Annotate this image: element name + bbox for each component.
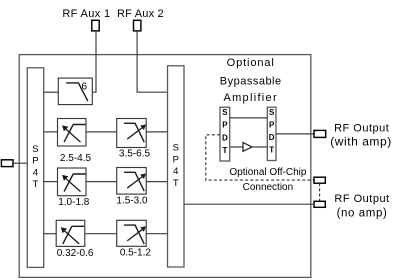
Optional Bypassable Amplifier label (220, 57, 282, 104)
low-pass symbol (66, 83, 88, 101)
svg-text:T: T (222, 146, 227, 155)
port RF Aux 2 (134, 20, 141, 31)
wire RF Aux 1 to LPF block (92, 31, 96, 92)
svg-text:RF Output: RF Output (334, 193, 389, 205)
svg-text:S: S (173, 143, 179, 154)
svg-text:(no amp): (no amp) (337, 207, 388, 219)
wire SP4T right to no-amp port (184, 203, 314, 205)
wire row2 to right SP4T (146, 131, 167, 133)
port RF input (left) (1, 160, 13, 167)
svg-text:T: T (269, 145, 274, 154)
switch SP4T right label (173, 143, 179, 189)
port RF Aux 1 (92, 20, 99, 31)
svg-text:0.32-0.6: 0.32-0.6 (57, 248, 94, 259)
svg-text:RF Aux 2: RF Aux 2 (117, 8, 164, 20)
switch SP4T left box (27, 68, 43, 268)
svg-text:D: D (222, 133, 228, 142)
svg-text:4: 4 (33, 167, 38, 178)
svg-text:RF Output: RF Output (334, 123, 389, 135)
wire row3 between blocks (86, 181, 117, 183)
filter tunable HPF 2.5-4.5 block (58, 119, 87, 147)
svg-text:Connection: Connection (243, 182, 294, 193)
svg-text:Optional: Optional (227, 57, 275, 69)
wire row2 SP4T to HPF (44, 131, 58, 133)
port off-chip lower (314, 201, 325, 207)
port off-chip upper (314, 177, 325, 183)
wire SPDT bypass top (230, 117, 268, 119)
svg-text:D: D (269, 133, 275, 142)
dashed wire SPDT left to off-chip port (206, 135, 314, 180)
svg-text:0.5-1.2: 0.5-1.2 (120, 248, 152, 259)
switch SP4T right box (168, 66, 185, 267)
switch SP4T left label (32, 144, 38, 190)
svg-text:Bypassable: Bypassable (220, 75, 282, 87)
svg-text:RF Aux 1: RF Aux 1 (62, 8, 110, 20)
wire row1 SP4T to LPF (44, 91, 59, 93)
filter tunable LPF 3.5-6.5 block (117, 119, 147, 148)
svg-text:S: S (269, 108, 275, 117)
svg-text:S: S (32, 144, 38, 155)
switch SPDT left box (220, 107, 230, 161)
svg-text:P: P (32, 156, 38, 167)
amplifier triangle (243, 143, 252, 152)
filter low-pass 6 GHz block (58, 78, 92, 105)
svg-text:T: T (173, 178, 179, 189)
switch SPDT left label (222, 108, 228, 155)
svg-text:Amplifier: Amplifier (223, 92, 278, 104)
filter tunable HPF 1.0-1.8 block (58, 168, 87, 196)
svg-text:P: P (222, 121, 228, 130)
svg-text:6: 6 (82, 82, 88, 93)
svg-text:3.5-6.5: 3.5-6.5 (119, 148, 151, 159)
wire row3 SP4T to HPF (44, 181, 58, 183)
switch SPDT right box (267, 107, 276, 160)
outer chip boundary box (19, 55, 311, 278)
wire SPDT to amplifier (230, 146, 243, 148)
svg-text:P: P (173, 155, 179, 166)
wire RF Aux 2 to right SP4T (137, 31, 167, 92)
port RF Output with amp (314, 130, 326, 137)
svg-text:1.5-3.0: 1.5-3.0 (116, 196, 148, 207)
switch SPDT right label (269, 108, 275, 154)
wire row4 SP4T to HPF (44, 233, 57, 235)
svg-text:4: 4 (173, 166, 178, 177)
wire amplifier to SPDT right (252, 146, 267, 148)
svg-text:S: S (222, 108, 228, 117)
wire row4 to right SP4T (146, 233, 167, 235)
svg-text:1.0-1.8: 1.0-1.8 (58, 197, 90, 208)
wire row4 between blocks (85, 233, 117, 235)
svg-text:P: P (269, 120, 275, 129)
wire row3 to right SP4T (146, 181, 167, 183)
svg-text:T: T (32, 179, 38, 190)
dashed wire off-chip connection (319, 183, 321, 201)
filter tunable LPF 0.5-1.2 block (117, 220, 147, 246)
wire row2 between blocks (86, 131, 117, 133)
svg-text:Optional Off-Chip: Optional Off-Chip (229, 167, 307, 178)
filter tunable LPF 1.5-3.0 block (117, 168, 147, 195)
filter tunable HPF 0.32-0.6 block (56, 220, 85, 246)
wire RF input to left SP4T (13, 162, 27, 164)
wire SPDT right to output port (276, 133, 314, 135)
svg-text:2.5-4.5: 2.5-4.5 (60, 153, 92, 164)
svg-text:(with amp): (with amp) (330, 135, 392, 149)
